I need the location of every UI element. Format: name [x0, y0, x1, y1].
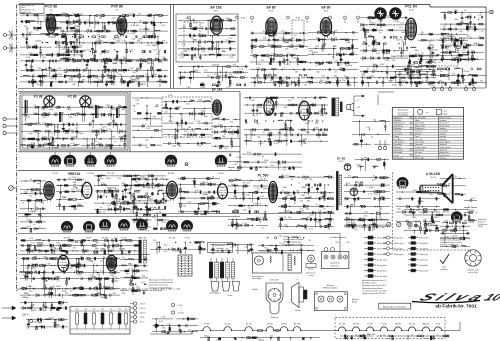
svg-text:Buchse weiß: Buchse weiß — [377, 276, 387, 278]
svg-text:50µ: 50µ — [84, 309, 87, 311]
svg-text:220k: 220k — [177, 106, 181, 108]
svg-text:PL 500: PL 500 — [258, 174, 269, 178]
svg-text:kΩ/V gegen Chassis: kΩ/V gegen Chassis — [362, 283, 377, 285]
svg-text:3,3k: 3,3k — [73, 208, 77, 210]
svg-text:PL 84: PL 84 — [436, 324, 441, 326]
svg-text:47k: 47k — [94, 270, 97, 272]
svg-text:EF 183: EF 183 — [168, 173, 174, 175]
svg-text:8,2k: 8,2k — [136, 68, 140, 70]
svg-text:PCL 84: PCL 84 — [405, 5, 417, 9]
svg-text:8,2k: 8,2k — [373, 69, 377, 71]
svg-text:+ 185 V: + 185 V — [139, 312, 147, 314]
svg-text:5n: 5n — [136, 177, 138, 179]
svg-text:3,3k: 3,3k — [75, 29, 79, 31]
svg-text:15n: 15n — [315, 52, 318, 54]
svg-text:– 25 V: – 25 V — [139, 321, 145, 323]
svg-text:47k: 47k — [245, 123, 248, 125]
svg-text:8,2k: 8,2k — [402, 80, 406, 82]
svg-text:A 59-12W: A 59-12W — [426, 172, 440, 176]
svg-text:18k: 18k — [257, 137, 260, 139]
svg-text:PCF 86: PCF 86 — [87, 173, 93, 175]
svg-text:1,2k: 1,2k — [120, 141, 124, 143]
svg-text:50n: 50n — [387, 338, 390, 340]
svg-text:Anschluß: Anschluß — [331, 265, 338, 268]
svg-text:EF 80: EF 80 — [267, 324, 272, 326]
svg-text:EF 80: EF 80 — [321, 6, 330, 10]
svg-text:2n: 2n — [447, 49, 449, 51]
svg-text:3,3k: 3,3k — [149, 59, 153, 61]
svg-text:1n: 1n — [104, 54, 106, 56]
svg-text:Lötöse grün: Lötöse grün — [419, 253, 428, 256]
svg-text:220k: 220k — [430, 45, 434, 47]
svg-text:220k: 220k — [305, 132, 309, 134]
svg-text:EF 80: EF 80 — [218, 173, 223, 175]
svg-text:10k: 10k — [118, 74, 121, 76]
svg-text:220k: 220k — [123, 201, 127, 203]
svg-text:PC 86: PC 86 — [382, 324, 387, 326]
svg-text:220k: 220k — [58, 74, 62, 76]
svg-text:125V: 125V — [380, 64, 385, 66]
svg-text:18k: 18k — [425, 338, 428, 340]
svg-text:1M: 1M — [304, 84, 307, 86]
svg-text:15n: 15n — [243, 183, 246, 185]
svg-text:A 59-12W: A 59-12W — [271, 279, 279, 282]
svg-text:5k: 5k — [263, 31, 265, 33]
svg-text:12k: 12k — [309, 196, 312, 198]
svg-text:0,5M: 0,5M — [113, 63, 118, 65]
svg-text:12k: 12k — [380, 20, 383, 22]
svg-text:1n: 1n — [263, 132, 265, 134]
svg-text:PY 88: PY 88 — [204, 324, 209, 326]
svg-text:125V: 125V — [63, 53, 68, 55]
svg-text:2,2k: 2,2k — [233, 164, 237, 166]
svg-text:EF 183: EF 183 — [211, 6, 222, 10]
svg-text:PCC 88: PCC 88 — [339, 324, 345, 326]
svg-text:50µ: 50µ — [76, 309, 79, 311]
svg-text:5n: 5n — [130, 33, 132, 35]
svg-text:2,2k: 2,2k — [87, 29, 91, 31]
svg-text:47k: 47k — [162, 41, 165, 43]
svg-text:4,7k: 4,7k — [318, 111, 322, 113]
svg-text:1n: 1n — [270, 80, 272, 82]
svg-text:47k: 47k — [347, 222, 350, 224]
svg-text:47k: 47k — [179, 137, 182, 139]
svg-text:1k: 1k — [309, 240, 311, 242]
svg-text:+ 0,2 kV: + 0,2 kV — [177, 312, 185, 314]
svg-text:1M: 1M — [97, 275, 100, 277]
svg-text:5k: 5k — [380, 27, 382, 29]
svg-text:5k: 5k — [103, 211, 105, 213]
svg-text:Richtung der: Richtung der — [215, 244, 226, 247]
svg-text:1M: 1M — [247, 195, 250, 197]
svg-text:Spannungen gemessen bei 220 V: Spannungen gemessen bei 220 V — [362, 285, 387, 287]
svg-text:5n: 5n — [316, 204, 318, 206]
svg-text:5k: 5k — [100, 54, 102, 56]
svg-text:4,7k: 4,7k — [114, 205, 118, 207]
svg-text:1n: 1n — [379, 32, 381, 34]
svg-text:PL 84: PL 84 — [122, 238, 127, 240]
svg-text:12k: 12k — [302, 103, 305, 105]
svg-text:125V: 125V — [151, 187, 156, 189]
svg-text:0,5M: 0,5M — [31, 143, 36, 145]
svg-text:ECH 81: ECH 81 — [64, 238, 71, 240]
svg-text:Lautspr.: Lautspr. — [295, 309, 302, 312]
svg-text:UHF tuner: UHF tuner — [326, 284, 334, 287]
svg-text:18k: 18k — [145, 147, 148, 149]
svg-text:+ 7 kV: + 7 kV — [177, 305, 183, 307]
svg-text:2,2k: 2,2k — [86, 21, 90, 23]
svg-text:5n: 5n — [304, 179, 306, 181]
svg-text:1n: 1n — [118, 133, 120, 135]
svg-text:125V: 125V — [415, 54, 420, 56]
svg-text:EF 80: EF 80 — [266, 6, 275, 10]
svg-text:50µ: 50µ — [93, 309, 96, 311]
svg-text:15n: 15n — [41, 109, 44, 111]
svg-text:geändert: geändert — [441, 268, 448, 271]
svg-text:ab Fabrik-Nr. 7001: ab Fabrik-Nr. 7001 — [435, 303, 477, 309]
svg-text:Tabelle: Tabelle — [478, 226, 483, 228]
svg-text:PCF 86: PCF 86 — [353, 324, 359, 326]
svg-text:47k: 47k — [145, 74, 148, 76]
svg-text:4,7k: 4,7k — [289, 84, 293, 86]
svg-text:2,2k: 2,2k — [478, 14, 482, 16]
svg-text:50n: 50n — [372, 64, 375, 66]
svg-text:5k: 5k — [382, 227, 384, 229]
svg-text:5k: 5k — [464, 10, 466, 12]
svg-text:50n: 50n — [200, 137, 203, 139]
svg-text:sind nur Beispiele: sind nur Beispiele — [149, 289, 162, 292]
svg-text:15n: 15n — [466, 71, 469, 73]
svg-text:10k: 10k — [393, 56, 396, 58]
svg-text:125V: 125V — [173, 251, 178, 253]
svg-text:EF 184: EF 184 — [212, 88, 223, 92]
svg-text:2,2k: 2,2k — [320, 80, 324, 82]
svg-text:EF 80: EF 80 — [86, 238, 91, 240]
svg-text:3,3k: 3,3k — [445, 212, 449, 214]
svg-text:220k: 220k — [65, 133, 69, 135]
svg-text:Fernseh-Einh. 405: Fernseh-Einh. 405 — [21, 5, 34, 7]
svg-text:0,5M: 0,5M — [131, 25, 136, 27]
svg-text:F 43: F 43 — [241, 18, 246, 20]
svg-text:1M: 1M — [354, 201, 357, 203]
svg-text:50µ: 50µ — [101, 309, 104, 311]
svg-text:5n: 5n — [154, 178, 156, 180]
svg-text:Stecker: Stecker — [308, 268, 314, 271]
svg-text:ECH 81: ECH 81 — [395, 324, 401, 326]
svg-text:2n: 2n — [194, 57, 196, 59]
svg-text:1k: 1k — [198, 34, 200, 36]
svg-text:15n: 15n — [48, 113, 51, 115]
svg-text:2,2k: 2,2k — [372, 180, 376, 182]
svg-text:2n: 2n — [373, 175, 375, 177]
svg-text:Fahne weiß: Fahne weiß — [419, 237, 428, 239]
svg-text:0,5M: 0,5M — [392, 85, 397, 87]
svg-text:(connections to mains) (schéma: (connections to mains) (schéma — [149, 281, 173, 284]
svg-text:5n: 5n — [380, 209, 382, 211]
svg-text:PCC 88: PCC 88 — [107, 173, 114, 175]
svg-text:2n: 2n — [71, 290, 73, 292]
svg-text:1k: 1k — [134, 111, 136, 113]
svg-text:1k: 1k — [367, 68, 369, 70]
svg-text:1n: 1n — [30, 179, 32, 181]
svg-text:50µ: 50µ — [110, 309, 113, 311]
svg-text:47k: 47k — [57, 277, 60, 279]
svg-text:47k: 47k — [139, 29, 142, 31]
svg-text:PL 36: PL 36 — [246, 324, 251, 326]
svg-text:47k: 47k — [348, 175, 351, 177]
svg-text:PL 84: PL 84 — [299, 74, 308, 78]
svg-text:Änderungen zum Netzanschluß: Änderungen zum Netzanschluß — [149, 279, 173, 282]
svg-text:3,3k: 3,3k — [247, 152, 251, 154]
svg-text:4,7k: 4,7k — [286, 64, 290, 66]
svg-text:50n: 50n — [136, 25, 139, 27]
svg-text:2,2k: 2,2k — [107, 129, 111, 131]
svg-text:50µ: 50µ — [118, 309, 121, 311]
svg-text:8,2k: 8,2k — [182, 206, 186, 208]
svg-text:4,7k: 4,7k — [29, 290, 33, 292]
svg-text:1,2k: 1,2k — [376, 53, 380, 55]
svg-text:50n: 50n — [271, 165, 274, 167]
svg-text:3,3k: 3,3k — [131, 39, 135, 41]
svg-text:0,5M: 0,5M — [52, 36, 57, 38]
svg-text:Buchse weiß: Buchse weiß — [377, 265, 387, 267]
svg-text:2n: 2n — [187, 137, 189, 139]
svg-text:Rö 13: Rö 13 — [430, 177, 436, 179]
svg-text:2n: 2n — [99, 293, 101, 295]
svg-text:1k: 1k — [270, 100, 272, 102]
svg-text:12k: 12k — [41, 243, 44, 245]
svg-text:18k: 18k — [284, 107, 287, 109]
svg-text:2,2k: 2,2k — [146, 128, 150, 130]
svg-text:10k: 10k — [222, 51, 225, 53]
svg-text:1M: 1M — [112, 137, 115, 139]
svg-text:125V: 125V — [77, 204, 82, 206]
svg-text:Änderungen vorbehalten!: Änderungen vorbehalten! — [383, 305, 407, 308]
svg-text:8,2k: 8,2k — [51, 78, 55, 80]
svg-text:10k: 10k — [354, 229, 357, 231]
svg-text:5k: 5k — [115, 277, 117, 279]
svg-text:2,2k: 2,2k — [135, 100, 139, 102]
svg-text:50n: 50n — [58, 68, 61, 70]
svg-text:8,2k: 8,2k — [129, 49, 133, 51]
svg-text:3,3k: 3,3k — [414, 67, 418, 69]
svg-text:18k: 18k — [281, 175, 284, 177]
svg-text:UHF-Bereichwähler: UHF-Bereichwähler — [323, 287, 338, 290]
svg-text:47k: 47k — [334, 30, 337, 32]
svg-text:12k: 12k — [100, 261, 103, 263]
svg-text:F 46: F 46 — [168, 95, 173, 97]
svg-text:12k: 12k — [24, 26, 27, 28]
svg-text:4,7k: 4,7k — [29, 238, 33, 240]
svg-text:Fassung: Fassung — [271, 317, 278, 319]
svg-text:50n: 50n — [322, 133, 325, 135]
svg-text:Stecker grau: Stecker grau — [394, 253, 404, 256]
svg-text:125V: 125V — [396, 39, 401, 41]
svg-text:2n: 2n — [123, 72, 125, 74]
svg-text:1M: 1M — [133, 72, 136, 74]
svg-text:1n: 1n — [27, 147, 29, 149]
svg-text:15n: 15n — [55, 147, 58, 149]
svg-text:Lautsprecher: Lautsprecher — [330, 262, 340, 265]
svg-text:0,5M: 0,5M — [237, 157, 242, 159]
svg-text:5n: 5n — [95, 141, 97, 143]
svg-text:2,2k: 2,2k — [163, 251, 167, 253]
svg-text:3,3k: 3,3k — [186, 104, 190, 106]
svg-text:Öse gelb/rot: Öse gelb/rot — [419, 242, 429, 245]
svg-text:1n: 1n — [33, 224, 35, 226]
svg-text:PL 500: PL 500 — [225, 324, 231, 326]
svg-text:2,2k: 2,2k — [201, 51, 205, 53]
svg-text:8,2k: 8,2k — [69, 80, 73, 82]
svg-text:Bildrohr: Bildrohr — [253, 289, 259, 291]
svg-text:5n: 5n — [22, 203, 24, 205]
svg-text:8,2k: 8,2k — [258, 107, 262, 109]
svg-text:18k: 18k — [113, 293, 116, 295]
svg-text:1k: 1k — [291, 179, 293, 181]
svg-text:2n: 2n — [33, 105, 35, 107]
svg-text:5k: 5k — [422, 201, 424, 203]
svg-text:1M: 1M — [72, 84, 75, 86]
svg-text:Silva: Silva — [415, 291, 491, 302]
svg-text:47k: 47k — [300, 201, 303, 203]
svg-text:47k: 47k — [29, 196, 32, 198]
svg-text:50n: 50n — [37, 183, 40, 185]
svg-text:Rö 12: Rö 12 — [339, 161, 344, 163]
svg-text:47k: 47k — [288, 100, 291, 102]
svg-text:1M: 1M — [309, 179, 312, 181]
svg-text:1M: 1M — [480, 81, 483, 83]
svg-text:Buchse blau: Buchse blau — [377, 270, 386, 272]
svg-text:47k: 47k — [315, 123, 318, 125]
svg-text:PL 36: PL 36 — [185, 238, 190, 240]
svg-text:PABC 80: PABC 80 — [138, 237, 146, 240]
svg-text:PL 500: PL 500 — [169, 238, 175, 240]
svg-text:220k: 220k — [88, 261, 92, 263]
svg-text:PC 88: PC 88 — [368, 324, 373, 326]
svg-text:PCL 84: PCL 84 — [409, 324, 415, 326]
svg-text:4,7k: 4,7k — [309, 229, 313, 231]
svg-text:18k: 18k — [372, 334, 375, 336]
svg-text:1k: 1k — [282, 191, 284, 193]
svg-text:47k: 47k — [65, 293, 68, 295]
svg-text:0,5M: 0,5M — [33, 322, 38, 324]
svg-text:4,7k: 4,7k — [294, 49, 298, 51]
svg-text:220k: 220k — [453, 235, 457, 237]
svg-text:8,2k: 8,2k — [277, 164, 281, 166]
svg-text:1k: 1k — [455, 176, 457, 178]
svg-text:5n: 5n — [65, 256, 67, 258]
svg-text:220k: 220k — [303, 139, 307, 141]
svg-text:L 1: L 1 — [296, 279, 298, 281]
svg-text:12k: 12k — [42, 57, 45, 59]
svg-text:Raste: Raste — [443, 112, 447, 115]
svg-text:125V: 125V — [257, 64, 262, 66]
svg-text:5n: 5n — [50, 13, 52, 15]
svg-text:PABC 80: PABC 80 — [422, 323, 429, 326]
svg-text:0,5M: 0,5M — [264, 160, 269, 162]
svg-text:18k: 18k — [159, 61, 162, 63]
svg-text:+ 195 V: + 195 V — [139, 303, 147, 305]
svg-text:15n: 15n — [167, 323, 170, 325]
svg-text:2,2k: 2,2k — [160, 178, 164, 180]
svg-text:PC 88: PC 88 — [52, 173, 57, 175]
svg-text:3,3k: 3,3k — [253, 204, 257, 206]
svg-text:3,3k: 3,3k — [470, 222, 474, 224]
svg-text:1n: 1n — [39, 227, 41, 229]
svg-text:5k: 5k — [104, 49, 106, 51]
svg-text:125V: 125V — [202, 194, 207, 196]
svg-text:15n: 15n — [303, 187, 306, 189]
svg-text:Fahne weiß: Fahne weiß — [419, 270, 428, 272]
svg-text:Lötöse grün: Lötöse grün — [419, 258, 428, 261]
svg-text:47k: 47k — [371, 76, 374, 78]
svg-text:125V: 125V — [470, 210, 475, 212]
svg-text:mit Bedienungsplatte: mit Bedienungsplatte — [330, 236, 346, 239]
svg-text:ECH 81: ECH 81 — [69, 172, 81, 176]
svg-text:50n: 50n — [38, 40, 41, 42]
svg-text:VHF-Bereich I u. III: VHF-Bereich I u. III — [21, 10, 35, 12]
svg-text:3,3k: 3,3k — [128, 264, 132, 266]
svg-text:3,3k: 3,3k — [56, 242, 60, 244]
svg-text:Stecker grau: Stecker grau — [394, 242, 404, 245]
svg-text:5n: 5n — [100, 207, 102, 209]
svg-text:1M: 1M — [188, 127, 191, 129]
svg-text:15n: 15n — [152, 45, 155, 47]
svg-text:8,2k: 8,2k — [310, 215, 314, 217]
svg-text:220k: 220k — [305, 123, 309, 125]
svg-text:8,2k: 8,2k — [141, 177, 145, 179]
svg-text:15n: 15n — [440, 71, 443, 73]
svg-text:1,2k: 1,2k — [33, 113, 37, 115]
svg-text:5n: 5n — [226, 40, 228, 42]
svg-text:5k: 5k — [332, 56, 334, 58]
svg-text:2n: 2n — [103, 195, 105, 197]
svg-text:47k: 47k — [285, 49, 288, 51]
svg-text:Tuner: Tuner — [21, 7, 26, 9]
svg-text:+ 220 V: + 220 V — [139, 308, 147, 310]
svg-text:125V: 125V — [99, 129, 104, 131]
svg-text:1,2k: 1,2k — [145, 139, 149, 141]
svg-text:Buchse weiß: Buchse weiß — [377, 259, 387, 261]
svg-text:2,2k: 2,2k — [98, 143, 102, 145]
svg-text:2n: 2n — [89, 122, 91, 124]
svg-text:15n: 15n — [164, 112, 167, 114]
svg-text:125V: 125V — [116, 41, 121, 43]
svg-text:L 1: L 1 — [357, 100, 360, 102]
svg-text:15n: 15n — [430, 194, 433, 196]
svg-text:47k: 47k — [459, 31, 462, 33]
svg-text:8,2k: 8,2k — [452, 73, 456, 75]
svg-text:12k: 12k — [99, 18, 102, 20]
svg-text:2,2k: 2,2k — [34, 270, 38, 272]
svg-text:47k: 47k — [35, 30, 38, 32]
svg-text:125V: 125V — [351, 52, 356, 54]
svg-text:18k: 18k — [82, 80, 85, 82]
svg-text:branchement du secteur): branchement du secteur) — [149, 284, 168, 287]
svg-text:3,3k: 3,3k — [278, 236, 282, 238]
svg-text:1M: 1M — [50, 310, 53, 312]
svg-text:PCC 88: PCC 88 — [45, 5, 57, 9]
svg-text:PCF 86: PCF 86 — [111, 5, 123, 9]
svg-text:Netztrafo: Netztrafo — [259, 250, 266, 253]
svg-text:12k: 12k — [152, 217, 155, 219]
svg-text:50n: 50n — [334, 72, 337, 74]
svg-text:3,3k: 3,3k — [162, 328, 166, 330]
svg-text:10k: 10k — [346, 217, 349, 219]
svg-text:Phono: Phono — [228, 295, 233, 297]
svg-text:Öse gelb/rot: Öse gelb/rot — [419, 264, 429, 267]
svg-text:125V: 125V — [297, 44, 302, 46]
